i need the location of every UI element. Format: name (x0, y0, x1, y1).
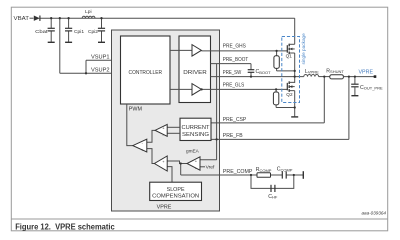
svg-text:VBAT: VBAT (14, 16, 30, 22)
svg-text:COMPENSATION: COMPENSATION (152, 194, 199, 200)
svg-text:SENSING: SENSING (182, 132, 210, 138)
svg-text:Q2: Q2 (286, 92, 293, 97)
svg-text:single package: single package (301, 33, 306, 65)
svg-text:PRE_GLS: PRE_GLS (223, 83, 245, 89)
svg-text:CBOOT: CBOOT (256, 69, 272, 75)
svg-text:CCOMP: CCOMP (277, 167, 293, 173)
svg-text:PRE_BOOT: PRE_BOOT (223, 57, 249, 63)
svg-text:PRE_COMP: PRE_COMP (223, 169, 253, 175)
svg-text:PRE_GHS: PRE_GHS (223, 44, 246, 50)
svg-text:Figure 12. VPRE schematic: Figure 12. VPRE schematic (15, 221, 115, 231)
svg-text:RCOMP: RCOMP (256, 167, 272, 173)
svg-text:CURRENT: CURRENT (182, 125, 210, 131)
svg-text:VSUP1: VSUP1 (91, 55, 110, 61)
svg-text:Cbat: Cbat (35, 29, 48, 35)
svg-text:gmEA: gmEA (186, 149, 200, 154)
svg-text:Cpi2: Cpi2 (88, 29, 98, 35)
svg-text:PRE_CSP: PRE_CSP (223, 117, 247, 123)
svg-text:VPRE: VPRE (359, 70, 374, 76)
svg-text:Vref: Vref (206, 165, 215, 171)
svg-text:VPRE: VPRE (157, 204, 172, 210)
svg-text:Q1: Q1 (286, 53, 293, 58)
svg-text:CHF: CHF (268, 194, 278, 200)
svg-text:SLOPE: SLOPE (167, 187, 185, 193)
svg-text:DRIVER: DRIVER (183, 70, 207, 76)
svg-text:Lpi: Lpi (85, 9, 92, 15)
svg-text:RSHUNT: RSHUNT (326, 68, 344, 74)
svg-text:VSUP2: VSUP2 (91, 68, 110, 74)
svg-text:COUT_PRE: COUT_PRE (360, 85, 383, 91)
svg-text:PWM: PWM (129, 107, 143, 113)
svg-text:Cpi1: Cpi1 (74, 29, 84, 35)
svg-text:PRE_SW: PRE_SW (223, 70, 242, 76)
svg-text:aaa-039364: aaa-039364 (361, 211, 386, 216)
svg-text:PRE_FB: PRE_FB (223, 133, 243, 139)
svg-text:CONTROLLER: CONTROLLER (129, 70, 163, 76)
svg-text:LVPRE: LVPRE (305, 69, 319, 75)
